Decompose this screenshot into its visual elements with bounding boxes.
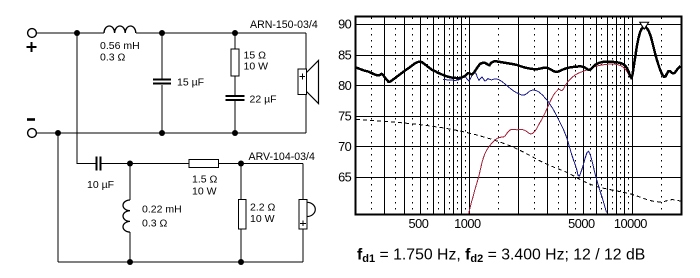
wire: node G to resistor R2 (130, 163, 189, 165)
inductor L2 0.22 mH (123, 200, 130, 232)
wire: R1 to C2 (234, 76, 236, 95)
speaker LS1 woofer body (298, 69, 307, 95)
wire: inductor L1 to woofer branch (136, 32, 306, 34)
svg-text:15 µF: 15 µF (177, 77, 204, 89)
wire: capacitor C2 bottom lead (234, 101, 236, 133)
chart horizontal gridlines 90-65 dB (356, 25, 682, 178)
speaker LS1 woofer cone (307, 61, 319, 104)
wire: ARV bottom rail (58, 261, 303, 263)
wire: resistor R3 to bottom rail (240, 229, 242, 262)
svg-text:2.2 Ω: 2.2 Ω (250, 202, 276, 214)
wire: minus rail down to ARV section (57, 133, 59, 262)
svg-text:ARV-104-03/4: ARV-104-03/4 (249, 151, 315, 163)
capacitor C2 22 uF (226, 96, 245, 100)
resistor R3 2.2 ohm (239, 200, 247, 230)
wire: capacitor C1 top lead (161, 33, 163, 79)
svg-text:10000: 10000 (614, 216, 647, 231)
minus polarity label (27, 118, 35, 121)
node F junction dot (232, 130, 238, 136)
wire: inductor L2 to bottom rail (129, 232, 131, 262)
wire: node I to resistor R3 (240, 164, 242, 200)
resistor R2 1.5 ohm (189, 160, 219, 168)
wire: tweeter to bottom rail (302, 229, 304, 262)
node H junction dot (127, 259, 133, 265)
chart dotted minor vertical gridlines (372, 28, 662, 215)
dashed impedance curve (356, 120, 682, 202)
capacitor C3 10 uF (97, 157, 101, 171)
svg-text:22 µF: 22 µF (250, 94, 277, 106)
chart top tick marks at minor gridlines (372, 17, 662, 20)
svg-text:0.3 Ω: 0.3 Ω (100, 52, 126, 64)
wire: resistor R1 top lead (234, 33, 236, 49)
wire: ARN bottom rail (36, 132, 306, 134)
terminal J1+ (input plus) (28, 29, 37, 38)
chart solid vertical gridlines (385, 17, 633, 215)
terminal J1- (input minus) (28, 129, 37, 138)
peak marker triangle (640, 22, 649, 29)
node C junction dot (232, 30, 238, 36)
speaker LS2 tweeter body (299, 200, 307, 230)
wire: woofer to bottom rail (305, 95, 307, 134)
wire: capacitor C3 to node G (101, 163, 131, 165)
plus polarity label (27, 42, 37, 52)
svg-text:10 µF: 10 µF (87, 179, 114, 191)
LS1 plus mark (300, 74, 306, 80)
wire: drop to tweeter (302, 164, 304, 200)
node B junction dot (159, 30, 165, 36)
svg-text:90: 90 (338, 17, 352, 32)
wire: capacitor C1 bottom lead (161, 85, 163, 133)
node E junction dot (159, 130, 165, 136)
node G junction dot (127, 161, 133, 167)
wire: node G to inductor L2 (129, 164, 131, 201)
inductor L1 0.56 mH (104, 26, 136, 33)
svg-text:500: 500 (408, 216, 428, 231)
svg-text:1.5 Ω: 1.5 Ω (192, 174, 218, 186)
chart frame (356, 17, 682, 215)
wire: resistor R2 to node I (219, 163, 304, 165)
black summed response curve (356, 27, 681, 82)
node I junction dot (238, 161, 244, 167)
svg-text:ARN-150-03/4: ARN-150-03/4 (250, 19, 318, 31)
wire: node A down to capacitor C3 (77, 33, 97, 164)
svg-text:65: 65 (338, 170, 352, 185)
red tweeter response curve (469, 64, 632, 214)
svg-text:70: 70 (338, 139, 352, 154)
svg-text:fd1 = 1.750 Hz, fd2 = 3.400 Hz: fd1 = 1.750 Hz, fd2 = 3.400 Hz; 12 / 12 … (357, 246, 645, 265)
LS2 plus mark (300, 221, 306, 227)
node D junction dot (55, 130, 61, 136)
svg-text:10 W: 10 W (250, 213, 275, 225)
wire: top rail drop to woofer (305, 33, 307, 69)
svg-text:10 W: 10 W (244, 61, 269, 73)
svg-text:1000: 1000 (454, 216, 481, 231)
capacitor C1 15 uF (153, 80, 171, 84)
svg-text:75: 75 (338, 109, 352, 124)
node A junction dot (74, 30, 80, 36)
svg-text:5000: 5000 (568, 216, 595, 231)
resistor R1 15 ohm (231, 49, 239, 76)
svg-text:0.56 mH: 0.56 mH (100, 40, 140, 52)
wire: plus terminal to inductor L1 (36, 32, 104, 34)
svg-text:0.22 mH: 0.22 mH (142, 204, 182, 216)
blue woofer response curve (443, 72, 607, 213)
node J junction dot (238, 259, 244, 265)
svg-text:10 W: 10 W (192, 186, 217, 198)
speaker LS2 tweeter dome (307, 202, 315, 216)
svg-text:0.3 Ω: 0.3 Ω (142, 218, 168, 230)
svg-text:85: 85 (338, 47, 352, 62)
svg-text:80: 80 (338, 78, 352, 93)
